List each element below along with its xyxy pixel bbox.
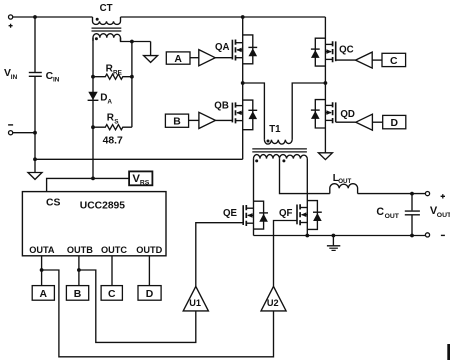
label VOUT — [430, 205, 450, 219]
T1 primary phase dot — [267, 140, 270, 143]
pin OUTB wire — [78, 256, 80, 286]
T1 core — [252, 149, 307, 152]
svg-text:IN: IN — [11, 74, 18, 81]
svg-text:U1: U1 — [189, 298, 201, 308]
node box A bottom — [32, 286, 54, 301]
wire CS — [47, 178, 130, 191]
transistor QD — [311, 100, 336, 128]
label LOUT — [333, 173, 352, 185]
svg-text:C: C — [376, 206, 384, 218]
driver B — [199, 112, 216, 128]
resistor RRE — [93, 74, 132, 79]
junction COUT bottom — [410, 234, 414, 238]
junction OUTB — [77, 268, 81, 272]
transformer CT secondary — [93, 34, 121, 41]
label DA — [100, 92, 112, 105]
svg-text:QC: QC — [339, 44, 354, 55]
wire U2 output to QF gate — [274, 221, 298, 287]
svg-text:A: A — [40, 289, 48, 300]
IC UCC2895 — [22, 192, 166, 256]
wire OUTB to U1 input — [79, 270, 196, 342]
node box A side — [166, 52, 190, 65]
svg-text:T1: T1 — [269, 124, 281, 135]
wire output return rail — [254, 235, 426, 237]
wire VIN+ to CT — [13, 16, 93, 18]
wire OUTA to U2 input — [42, 270, 274, 357]
junction left leg top — [241, 15, 245, 19]
svg-text:QE: QE — [223, 208, 238, 219]
node box C side — [382, 53, 406, 67]
wire VIN- node to bus — [34, 133, 36, 160]
svg-text:UCC2895: UCC2895 — [80, 200, 125, 211]
transistor QA — [232, 35, 257, 64]
wire center tap to LOUT — [280, 159, 330, 194]
junction right leg mid — [324, 81, 328, 85]
terminal VIN+ — [9, 15, 13, 28]
driver C — [356, 52, 373, 68]
svg-text:D: D — [146, 289, 154, 300]
wire QE leg — [253, 159, 255, 236]
pin OUTC wire — [111, 256, 113, 286]
junction COUT top — [410, 192, 414, 196]
buffer U1 — [183, 286, 208, 311]
node box D bottom — [138, 286, 161, 301]
ground input — [28, 159, 42, 179]
wire driver C to box — [372, 59, 382, 61]
svg-text:QF: QF — [279, 208, 293, 219]
svg-text:OUT: OUT — [338, 178, 351, 185]
svg-text:S: S — [114, 119, 119, 126]
junction CIN top — [33, 15, 37, 19]
node box B side — [165, 114, 188, 127]
pin OUTA wire — [41, 256, 43, 286]
transistor QB — [232, 100, 257, 130]
mark bottom right — [447, 344, 450, 360]
svg-text:OUTD: OUTD — [136, 245, 162, 255]
svg-text:A: A — [107, 98, 112, 105]
transistor QC — [311, 38, 336, 66]
node box D side — [383, 115, 406, 129]
svg-text:48.7: 48.7 — [103, 136, 123, 147]
wire top rail right — [121, 16, 326, 18]
transformer CT primary — [93, 17, 121, 24]
capacitor COUT — [405, 194, 420, 236]
pin OUTD wire — [148, 256, 150, 286]
wire left bridge leg — [242, 17, 244, 159]
junction RRE left — [91, 75, 95, 79]
label COUT — [376, 206, 399, 220]
wire QD gate to driver — [336, 121, 356, 123]
CT core — [92, 28, 122, 31]
T1 secondary phase dot left — [255, 159, 258, 162]
ground CT — [144, 42, 158, 63]
svg-text:QA: QA — [215, 42, 230, 53]
CT secondary phase dot — [95, 37, 98, 40]
wire driver A to QA gate — [215, 57, 232, 59]
junction QF source — [305, 234, 309, 238]
transformer T1 primary — [264, 140, 292, 144]
junction left leg mid — [241, 81, 245, 85]
wire right branch down — [131, 42, 133, 128]
wire right bridge leg — [324, 17, 326, 153]
diode DA — [88, 92, 99, 101]
wire ground bus — [35, 158, 243, 160]
wire driver D to box — [372, 121, 382, 123]
svg-text:IN: IN — [53, 77, 60, 84]
wire CIN top — [34, 17, 36, 72]
buffer U2 — [261, 286, 286, 311]
node box C bottom — [101, 286, 122, 301]
transistor QF — [297, 201, 322, 230]
label CIN — [46, 71, 60, 84]
svg-text:QB: QB — [214, 101, 229, 112]
node VRS — [129, 171, 152, 186]
svg-text:C: C — [108, 289, 116, 300]
junction bus — [33, 157, 37, 161]
resistor RS — [93, 125, 132, 130]
wire T1 primary right — [292, 83, 325, 140]
wire VIN- to node — [13, 132, 35, 134]
junction earth — [332, 234, 336, 238]
junction OUTA — [40, 268, 44, 272]
svg-text:C: C — [390, 56, 398, 67]
ground right leg — [318, 153, 332, 160]
svg-text:CT: CT — [100, 3, 113, 14]
driver D — [356, 114, 373, 130]
label VIN — [4, 68, 18, 81]
svg-text:OUT: OUT — [385, 213, 400, 220]
junction CT right branch — [130, 40, 134, 44]
junction RRE right — [130, 75, 134, 79]
terminal VIN- — [8, 125, 13, 135]
junction RS left — [91, 125, 95, 129]
wire CT secondary right to ground — [121, 38, 151, 42]
transistor QE — [243, 201, 268, 229]
transformer T1 secondary — [254, 155, 308, 159]
junction CS wire — [91, 177, 95, 181]
wire CT secondary left down — [92, 38, 94, 77]
wire LOUT to + terminal — [358, 193, 425, 195]
terminal VOUT+ — [425, 192, 445, 199]
wire B to driver — [189, 119, 199, 121]
svg-text:OUT: OUT — [437, 212, 450, 219]
svg-text:OUTB: OUTB — [67, 245, 93, 255]
inductor LOUT — [330, 184, 358, 194]
svg-text:CS: CS — [46, 197, 61, 208]
wire A to driver — [190, 57, 199, 59]
svg-text:RS: RS — [140, 180, 150, 187]
capacitor CIN — [29, 73, 42, 77]
svg-text:QD: QD — [340, 109, 355, 120]
CT primary phase dot — [96, 18, 99, 21]
svg-text:OUTC: OUTC — [101, 245, 127, 255]
svg-text:A: A — [174, 54, 182, 65]
label RRE — [106, 63, 123, 76]
wire QF leg — [306, 159, 308, 236]
label RS — [107, 113, 119, 126]
node box B bottom — [66, 286, 88, 301]
svg-text:U2: U2 — [267, 298, 279, 308]
wire QC gate to driver — [336, 59, 356, 61]
svg-text:B: B — [74, 289, 82, 300]
svg-text:B: B — [173, 117, 181, 128]
junction VIN- — [33, 131, 37, 135]
wire T1 primary left — [243, 83, 265, 140]
driver A — [199, 50, 215, 66]
svg-text:D: D — [390, 118, 398, 129]
terminal VOUT- — [425, 233, 445, 237]
ground output earth — [327, 236, 340, 251]
T1 secondary phase dot right — [282, 159, 285, 162]
wire U1 output to QE gate — [196, 223, 243, 287]
wire driver B to QB gate — [216, 119, 233, 121]
svg-text:RE: RE — [113, 69, 123, 76]
wire left branch down — [92, 77, 94, 179]
wire CIN bottom — [34, 77, 36, 133]
svg-text:D: D — [100, 92, 107, 103]
svg-text:OUTA: OUTA — [29, 245, 55, 255]
